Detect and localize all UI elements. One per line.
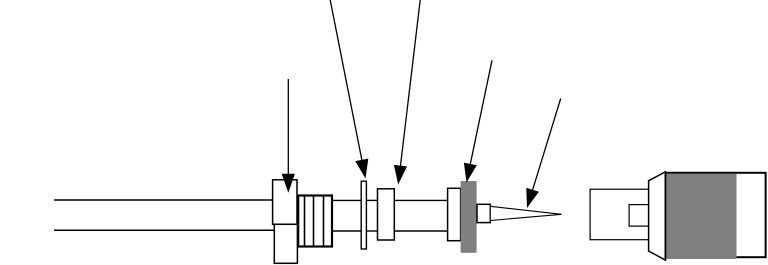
ferrule block	[477, 204, 490, 222]
crimp sleeve rib line 2	[313, 196, 315, 247]
arrow 5 line	[530, 99, 560, 198]
arrow 1 line	[287, 79, 289, 181]
arrow 2 line	[330, 0, 363, 167]
wire shaft bottom segment 1	[332, 230, 361, 232]
flange upper block	[273, 180, 297, 225]
collar block	[448, 188, 461, 240]
wire shaft bottom segment 3	[394, 230, 448, 232]
arrow 4 head	[464, 163, 477, 183]
arrow 2 head	[355, 159, 368, 179]
connector notch block	[629, 205, 649, 227]
crimp sleeve ribbed block	[298, 196, 332, 247]
spacer small block	[378, 189, 395, 240]
arrow 1 head	[282, 174, 295, 193]
connector barrel outline	[666, 173, 766, 257]
connector trapezoid neck	[649, 172, 666, 260]
crimp sleeve rib line 3	[323, 196, 325, 247]
crimp sleeve rib line 1	[304, 196, 306, 247]
wire shaft top segment 3	[394, 199, 448, 201]
washer thin bar	[361, 181, 366, 249]
bushing gray bar	[461, 181, 477, 253]
arrow 3 line	[400, 0, 421, 173]
arrow 5 head	[526, 188, 539, 208]
wire shaft top segment 1	[332, 199, 361, 201]
connector barrel gray fill	[666, 174, 736, 259]
wire shaft bottom segment 2	[366, 230, 377, 232]
wire cable bottom line	[54, 229, 274, 231]
flange lower block	[274, 224, 297, 263]
arrow 4 line	[469, 60, 492, 171]
needle taper tip	[490, 206, 561, 220]
connector body left block	[590, 189, 649, 240]
wire shaft top segment 2	[366, 199, 377, 201]
wire cable top line	[54, 199, 273, 201]
arrow 3 head	[394, 165, 407, 185]
